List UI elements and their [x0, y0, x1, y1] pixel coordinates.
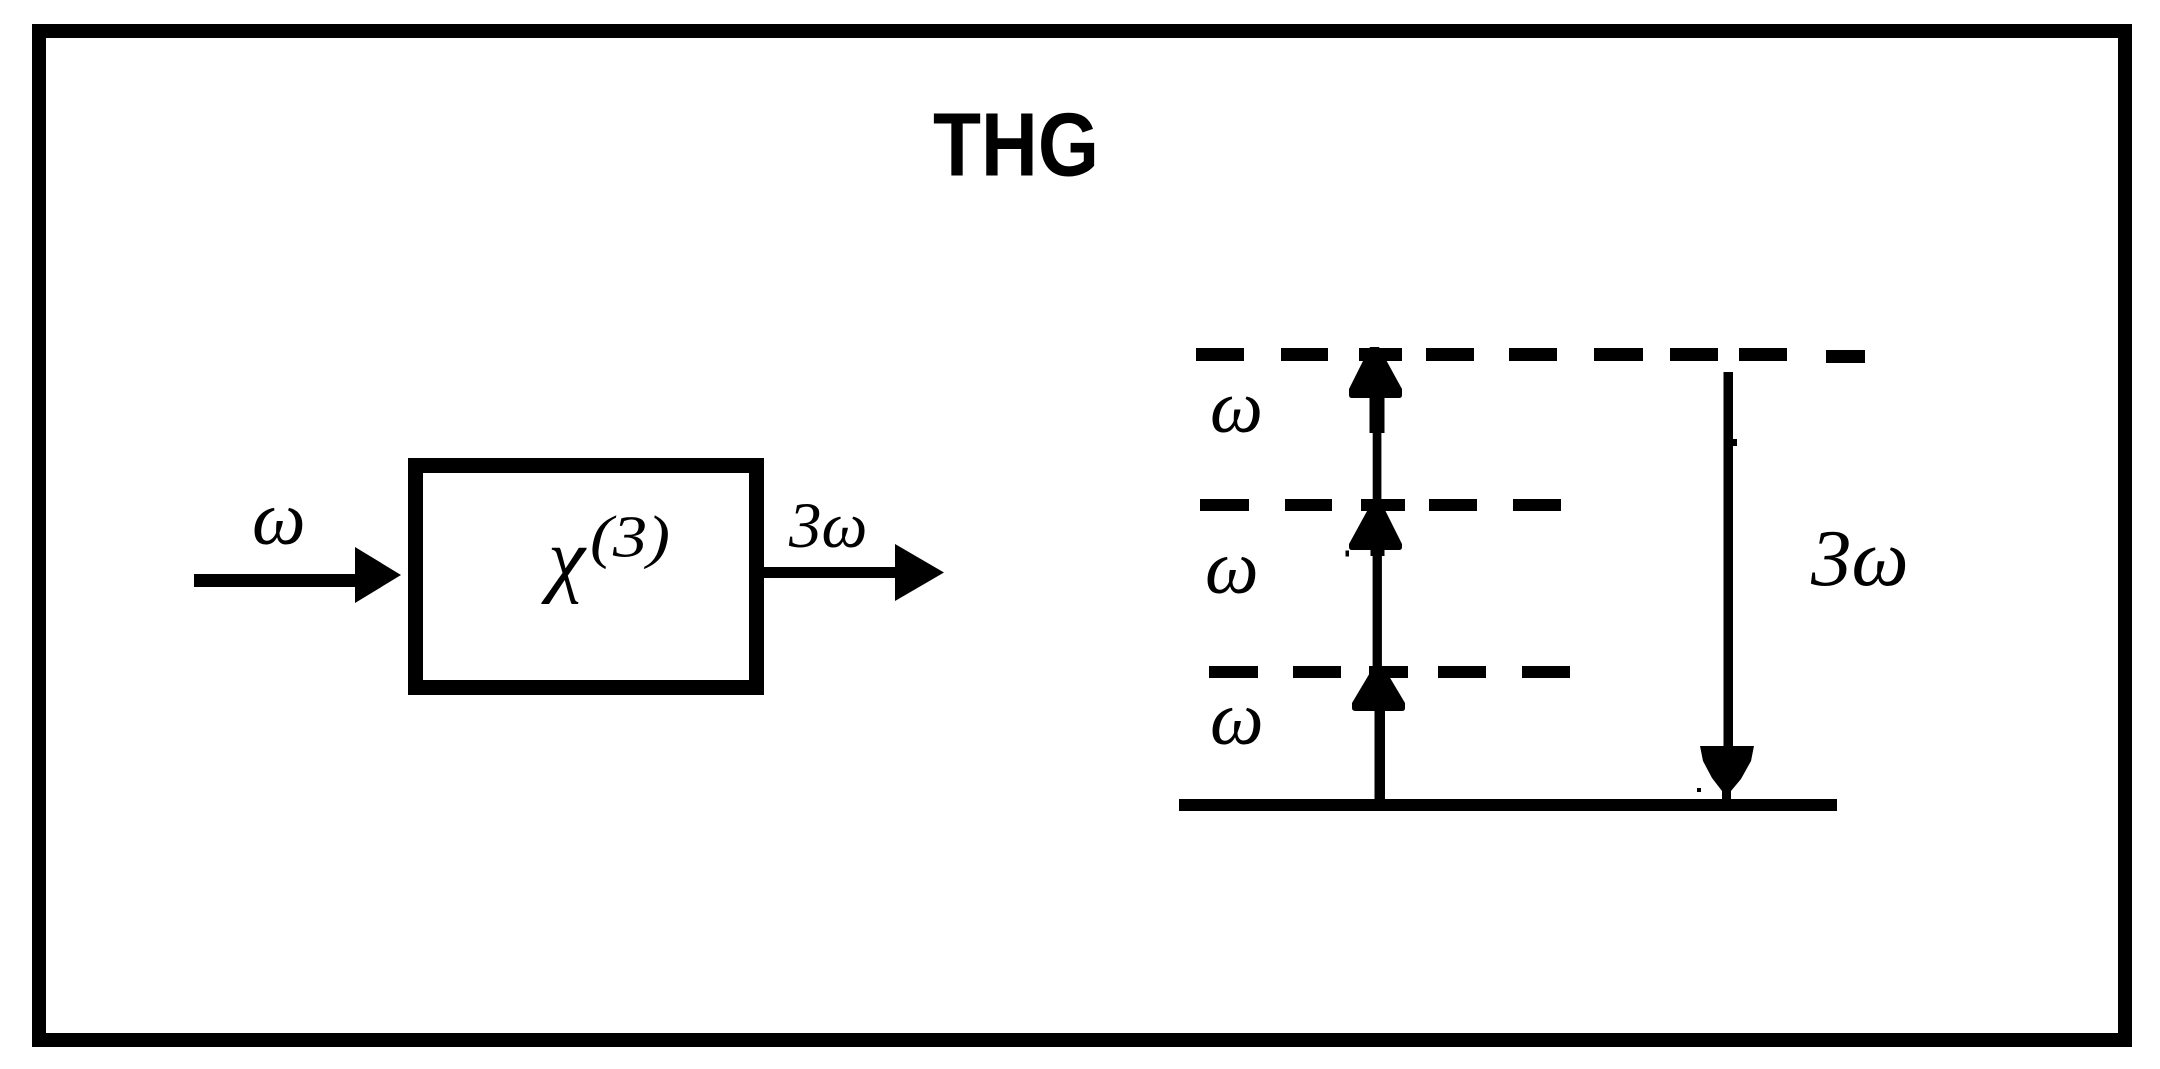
- down arrow 3omega shaft: [1724, 372, 1734, 752]
- speck near down arrowhead: [1697, 788, 1701, 792]
- speck on down shaft: [1732, 439, 1737, 446]
- svg-text:χ: χ: [541, 512, 587, 605]
- up arrow 1 head: [1352, 666, 1405, 711]
- input arrow wire: [194, 574, 362, 587]
- svg-text:ω: ω: [1210, 366, 1263, 449]
- ground state line: [1179, 799, 1837, 811]
- output arrowhead: [895, 544, 944, 601]
- level line: middle dashed (2-photon virtual level): [1200, 499, 1561, 511]
- up arrow 2 head: [1349, 502, 1402, 550]
- up arrow 3 head stub: [1370, 397, 1385, 433]
- svg-text:(3): (3): [590, 504, 670, 570]
- svg-text:3ω: 3ω: [1810, 513, 1909, 603]
- up arrow 1 (bottom photon) shaft: [1375, 711, 1386, 800]
- box chi(3): [416, 466, 757, 688]
- svg-text:ω: ω: [1205, 526, 1259, 610]
- svg-text:ω: ω: [1210, 677, 1264, 761]
- level line: lower dashed (1-photon virtual level): [1209, 666, 1570, 678]
- svg-text:THG: THG: [933, 96, 1099, 196]
- level line: top dashed (3-photon virtual level): [1196, 348, 1865, 363]
- up arrow 3 head: [1349, 347, 1402, 398]
- svg-text:3ω: 3ω: [788, 490, 867, 562]
- up arrow 2 (middle photon) shaft: [1371, 550, 1385, 556]
- up arrow 3 (top photon) shaft: [1373, 428, 1382, 506]
- output arrow wire: [764, 567, 900, 578]
- input arrowhead: [355, 547, 401, 603]
- down arrow head: [1700, 746, 1754, 800]
- speck left of up arrow 2: [1346, 551, 1350, 557]
- svg-text:ω: ω: [252, 477, 306, 561]
